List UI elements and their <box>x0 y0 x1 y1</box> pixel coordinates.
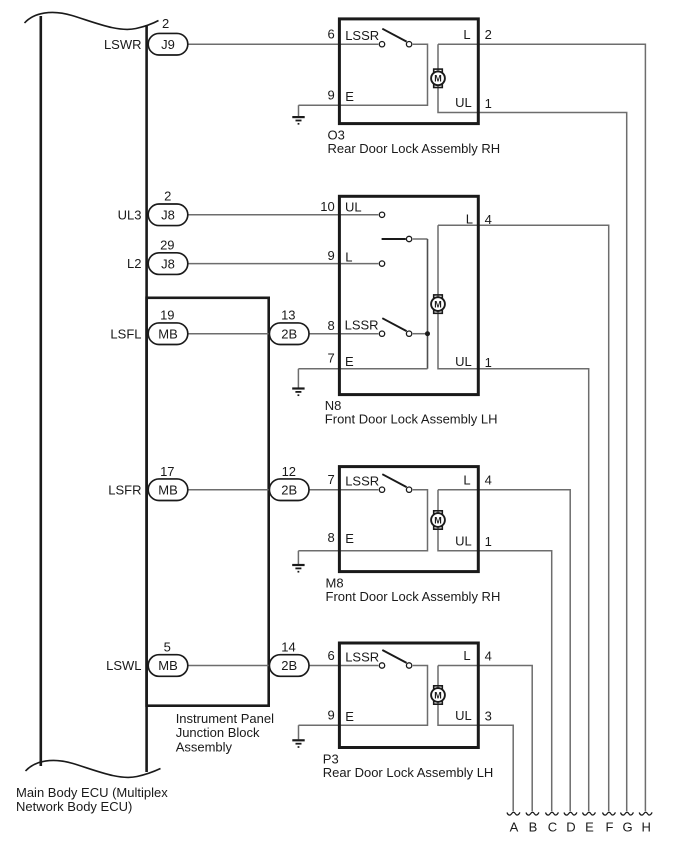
wire connector 2B to N8 pin 8 <box>308 333 379 335</box>
svg-text:Junction Block: Junction Block <box>176 725 260 740</box>
N8 motor <box>434 295 443 298</box>
svg-text:E: E <box>345 709 354 724</box>
svg-text:D: D <box>566 820 575 835</box>
M8 door lock switch LSSR contacts <box>379 487 384 492</box>
node H break symbol <box>639 812 652 815</box>
svg-text:E: E <box>345 89 354 104</box>
svg-text:UL: UL <box>455 354 472 369</box>
M8 motor <box>434 511 443 514</box>
svg-text:2B: 2B <box>281 326 297 341</box>
wire connector 2B to M8 pin 7 <box>308 489 379 491</box>
svg-text:4: 4 <box>485 212 492 227</box>
N8 box outline <box>339 196 478 394</box>
node A break symbol <box>507 812 520 815</box>
svg-text:LSFL: LSFL <box>110 326 141 341</box>
connector MB (LSWL) <box>148 655 188 677</box>
svg-text:Main Body ECU (Multiplex: Main Body ECU (Multiplex <box>16 785 168 800</box>
svg-text:14: 14 <box>281 640 295 655</box>
node D break symbol <box>564 812 577 815</box>
N8 position switch blade and common contact <box>382 238 406 240</box>
svg-text:Rear Door Lock Assembly RH: Rear Door Lock Assembly RH <box>328 141 501 156</box>
M8 door lock switch LSSR blade <box>382 474 406 487</box>
wire N8 switch common to pin 7 E row <box>413 238 428 240</box>
wire LSWR from connector J9 to O3 pin 6 <box>188 43 379 45</box>
svg-text:10: 10 <box>320 199 334 214</box>
wire O3 motor to UL row <box>438 44 478 112</box>
svg-text:M: M <box>434 515 442 525</box>
wire O3 L pin 2 to node H <box>478 44 645 811</box>
svg-text:9: 9 <box>327 708 334 723</box>
Main Body ECU bottom break wavy line <box>26 760 161 777</box>
svg-text:J9: J9 <box>161 37 175 52</box>
wire M8 motor to UL row <box>438 490 478 551</box>
wire UL3 from connector J8 to N8 pin 10 <box>188 214 379 216</box>
svg-text:LSSR: LSSR <box>345 28 379 43</box>
svg-text:13: 13 <box>281 307 295 322</box>
svg-text:2B: 2B <box>281 658 297 673</box>
wire P3 UL pin 3 to node A <box>478 725 513 811</box>
svg-text:LSSR: LSSR <box>345 474 379 489</box>
svg-text:3: 3 <box>485 709 492 724</box>
svg-text:2: 2 <box>162 16 169 31</box>
connector J8 (UL3) <box>148 204 188 226</box>
svg-text:LSWL: LSWL <box>106 658 141 673</box>
O3 door lock switch LSSR contacts <box>379 42 384 47</box>
N8 door lock switch LSSR contacts <box>379 331 384 336</box>
wire M8 switch return to pin 8 E row <box>338 490 427 551</box>
Main Body ECU left edge line <box>39 16 42 766</box>
wire O3 motor to L row <box>438 43 478 45</box>
svg-text:J8: J8 <box>161 208 175 223</box>
ground at P3 pin 9 <box>298 725 300 739</box>
connector J8 (L2) <box>148 253 188 275</box>
wire P3 motor to UL row <box>438 666 478 726</box>
svg-text:H: H <box>642 820 651 835</box>
svg-text:4: 4 <box>485 649 492 664</box>
connector MB (LSFL) <box>148 323 188 345</box>
svg-text:9: 9 <box>327 248 334 263</box>
wire connector 2B to P3 pin 6 <box>308 665 379 667</box>
node F break symbol <box>603 812 616 815</box>
wire N8 motor to L row <box>438 224 478 226</box>
svg-text:8: 8 <box>327 318 334 333</box>
svg-text:12: 12 <box>282 464 296 479</box>
svg-text:2: 2 <box>485 27 492 42</box>
svg-text:UL: UL <box>455 95 472 110</box>
O3 door lock switch LSSR blade <box>382 29 406 42</box>
N8 position switch UL contact <box>379 212 384 217</box>
N8 position switch L contact <box>379 261 384 266</box>
wire L2 from connector J8 to N8 pin 9 <box>188 263 379 265</box>
Main Body ECU top break wavy line <box>25 12 159 29</box>
svg-text:UL: UL <box>455 708 472 723</box>
svg-text:1: 1 <box>485 534 492 549</box>
connector MB (LSFR) <box>148 479 188 501</box>
svg-text:9: 9 <box>327 88 334 103</box>
svg-text:1: 1 <box>485 96 492 111</box>
N8 door lock switch LSSR blade <box>382 318 406 331</box>
wire O3 UL pin 1 to node G <box>478 113 626 812</box>
Main Body ECU right edge line <box>145 25 148 772</box>
svg-text:MB: MB <box>158 326 178 341</box>
svg-text:L: L <box>463 648 470 663</box>
connector J9 <box>148 33 188 55</box>
svg-text:17: 17 <box>160 464 174 479</box>
svg-text:B: B <box>529 820 538 835</box>
connector 2B pin 12 <box>269 479 309 501</box>
svg-text:Front Door Lock Assembly RH: Front Door Lock Assembly RH <box>326 589 501 604</box>
svg-text:7: 7 <box>327 351 334 366</box>
svg-text:MB: MB <box>158 658 178 673</box>
svg-text:Instrument Panel: Instrument Panel <box>176 711 274 726</box>
wire LSFR from connector MB to connector 2B <box>187 489 270 491</box>
wire M8 UL pin 1 to node C <box>478 551 551 812</box>
wire LSFL from connector MB to connector 2B <box>188 333 270 335</box>
wire O3 switch return to pin 9 E row <box>338 44 427 105</box>
svg-text:E: E <box>585 820 594 835</box>
svg-text:C: C <box>548 820 557 835</box>
svg-text:6: 6 <box>327 648 334 663</box>
svg-text:8: 8 <box>327 530 334 545</box>
svg-text:UL: UL <box>345 200 362 215</box>
svg-text:Front Door Lock Assembly LH: Front Door Lock Assembly LH <box>325 412 498 427</box>
svg-text:UL3: UL3 <box>118 207 142 222</box>
connector 2B pin 13 <box>269 323 309 345</box>
wire M8 motor to L row <box>438 489 478 491</box>
P3 motor <box>434 686 443 689</box>
node B break symbol <box>526 812 539 815</box>
ground at N8 pin 7 <box>297 369 299 388</box>
wire M8 L pin 4 to node D <box>478 490 570 812</box>
svg-text:LSSR: LSSR <box>345 318 379 333</box>
wire N8 UL pin 1 to node E <box>478 369 588 812</box>
svg-text:2: 2 <box>164 188 171 203</box>
svg-text:Assembly: Assembly <box>176 740 233 755</box>
svg-text:LSSR: LSSR <box>345 650 379 665</box>
wire O3 pin 9 E to ground <box>299 104 340 106</box>
wire P3 L pin 4 to node B <box>478 666 532 812</box>
O3 motor <box>434 69 443 72</box>
wire M8 pin 8 E to ground <box>298 550 339 552</box>
svg-text:J8: J8 <box>161 256 175 271</box>
node E break symbol <box>583 812 596 815</box>
node G break symbol <box>621 812 634 815</box>
svg-text:L: L <box>463 27 470 42</box>
svg-text:E: E <box>345 354 354 369</box>
wire N8 pin 7 E to ground <box>298 368 339 370</box>
svg-text:L: L <box>345 250 352 265</box>
node C break symbol <box>546 812 559 815</box>
svg-text:G: G <box>622 820 632 835</box>
svg-text:Rear Door Lock Assembly LH: Rear Door Lock Assembly LH <box>323 765 494 780</box>
svg-text:Network Body ECU): Network Body ECU) <box>16 799 132 814</box>
svg-text:M: M <box>434 690 442 700</box>
svg-text:M: M <box>434 300 442 310</box>
svg-text:F: F <box>606 820 614 835</box>
svg-text:29: 29 <box>160 238 174 253</box>
svg-text:7: 7 <box>327 472 334 487</box>
wire N8 LSSR switch common to junction <box>413 333 428 335</box>
svg-text:L2: L2 <box>127 256 141 271</box>
svg-text:1: 1 <box>485 355 492 370</box>
P3 door lock switch LSSR blade <box>382 650 406 663</box>
wire P3 switch return to pin 9 E row <box>338 666 427 726</box>
wire LSWL from connector MB to connector 2B <box>187 665 270 667</box>
wire N8 L pin 4 to node F <box>478 225 608 811</box>
P3 box outline <box>339 643 478 748</box>
svg-text:5: 5 <box>164 640 171 655</box>
N8 junction dot <box>425 331 430 336</box>
connector 2B pin 14 <box>269 655 309 677</box>
P3 door lock switch LSSR contacts <box>379 663 384 668</box>
svg-text:M: M <box>434 74 442 84</box>
wire N8 motor to UL row <box>438 225 478 369</box>
svg-text:LSWR: LSWR <box>104 37 142 52</box>
svg-text:L: L <box>463 472 470 487</box>
ground at M8 pin 8 <box>297 551 299 564</box>
svg-text:LSFR: LSFR <box>108 482 141 497</box>
svg-text:4: 4 <box>485 473 492 488</box>
wire P3 pin 9 E to ground <box>299 724 340 726</box>
wire P3 motor to L row <box>438 665 478 667</box>
M8 box outline <box>339 467 478 572</box>
svg-text:6: 6 <box>327 27 334 42</box>
ground at O3 pin 9 <box>298 105 300 116</box>
O3 box outline <box>339 19 478 124</box>
svg-text:A: A <box>510 820 519 835</box>
svg-text:L: L <box>466 211 473 226</box>
svg-text:UL: UL <box>455 534 472 549</box>
svg-text:MB: MB <box>158 482 178 497</box>
svg-text:2B: 2B <box>281 482 297 497</box>
svg-text:19: 19 <box>160 307 174 322</box>
svg-text:E: E <box>345 531 354 546</box>
Instrument Panel Junction Block Assembly box <box>147 298 269 706</box>
